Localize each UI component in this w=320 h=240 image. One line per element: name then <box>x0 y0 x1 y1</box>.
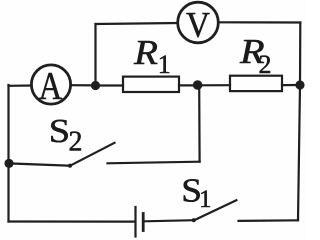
switch S2 blade <box>70 143 115 166</box>
voltmeter V <box>178 2 219 43</box>
wire: R1 to node D <box>179 84 198 86</box>
wire: R2 to node C <box>282 84 300 86</box>
svg-text:S: S <box>49 112 70 149</box>
battery negative plate (short) <box>142 214 145 231</box>
node B junction dot <box>91 81 100 90</box>
wire: left rail to ammeter <box>9 84 32 87</box>
wire: node B up to top rail <box>94 24 96 85</box>
svg-text:2: 2 <box>69 127 83 158</box>
ammeter A <box>31 65 70 104</box>
switch S1 blade <box>194 200 237 220</box>
wire: S2 right lead <box>108 162 200 164</box>
svg-text:A: A <box>39 64 63 107</box>
svg-text:V: V <box>186 5 210 45</box>
wire: top rail right of voltmeter <box>218 21 300 23</box>
node C junction dot <box>295 80 304 89</box>
svg-text:R: R <box>133 34 158 73</box>
wire: S1 right lead / bottom rail right <box>239 219 299 222</box>
wire: bottom rail left to battery <box>9 220 135 222</box>
wire: top rail left of voltmeter <box>96 23 178 24</box>
switch S1 pivot <box>192 218 196 222</box>
wire: right vertical rail upper <box>299 23 301 86</box>
wire: left vertical rail <box>7 85 9 222</box>
wire: node B to R1 <box>96 84 124 86</box>
wire: ammeter to node B <box>71 84 95 86</box>
node E junction dot <box>4 159 13 168</box>
resistor R2 <box>230 76 282 91</box>
wire: node D to R2 <box>198 84 230 86</box>
wire: battery to S1 pivot <box>145 220 194 221</box>
wire: right vertical rail lower <box>298 85 300 220</box>
resistor R1 <box>123 77 179 92</box>
wire: node E to S2 pivot <box>9 163 70 165</box>
battery positive plate (long) <box>134 207 136 237</box>
wire: node D down <box>198 86 201 162</box>
node D junction dot <box>193 80 203 90</box>
svg-text:2: 2 <box>259 50 272 79</box>
switch S2 pivot <box>68 164 72 168</box>
svg-text:1: 1 <box>158 50 171 79</box>
svg-text:1: 1 <box>199 186 212 213</box>
